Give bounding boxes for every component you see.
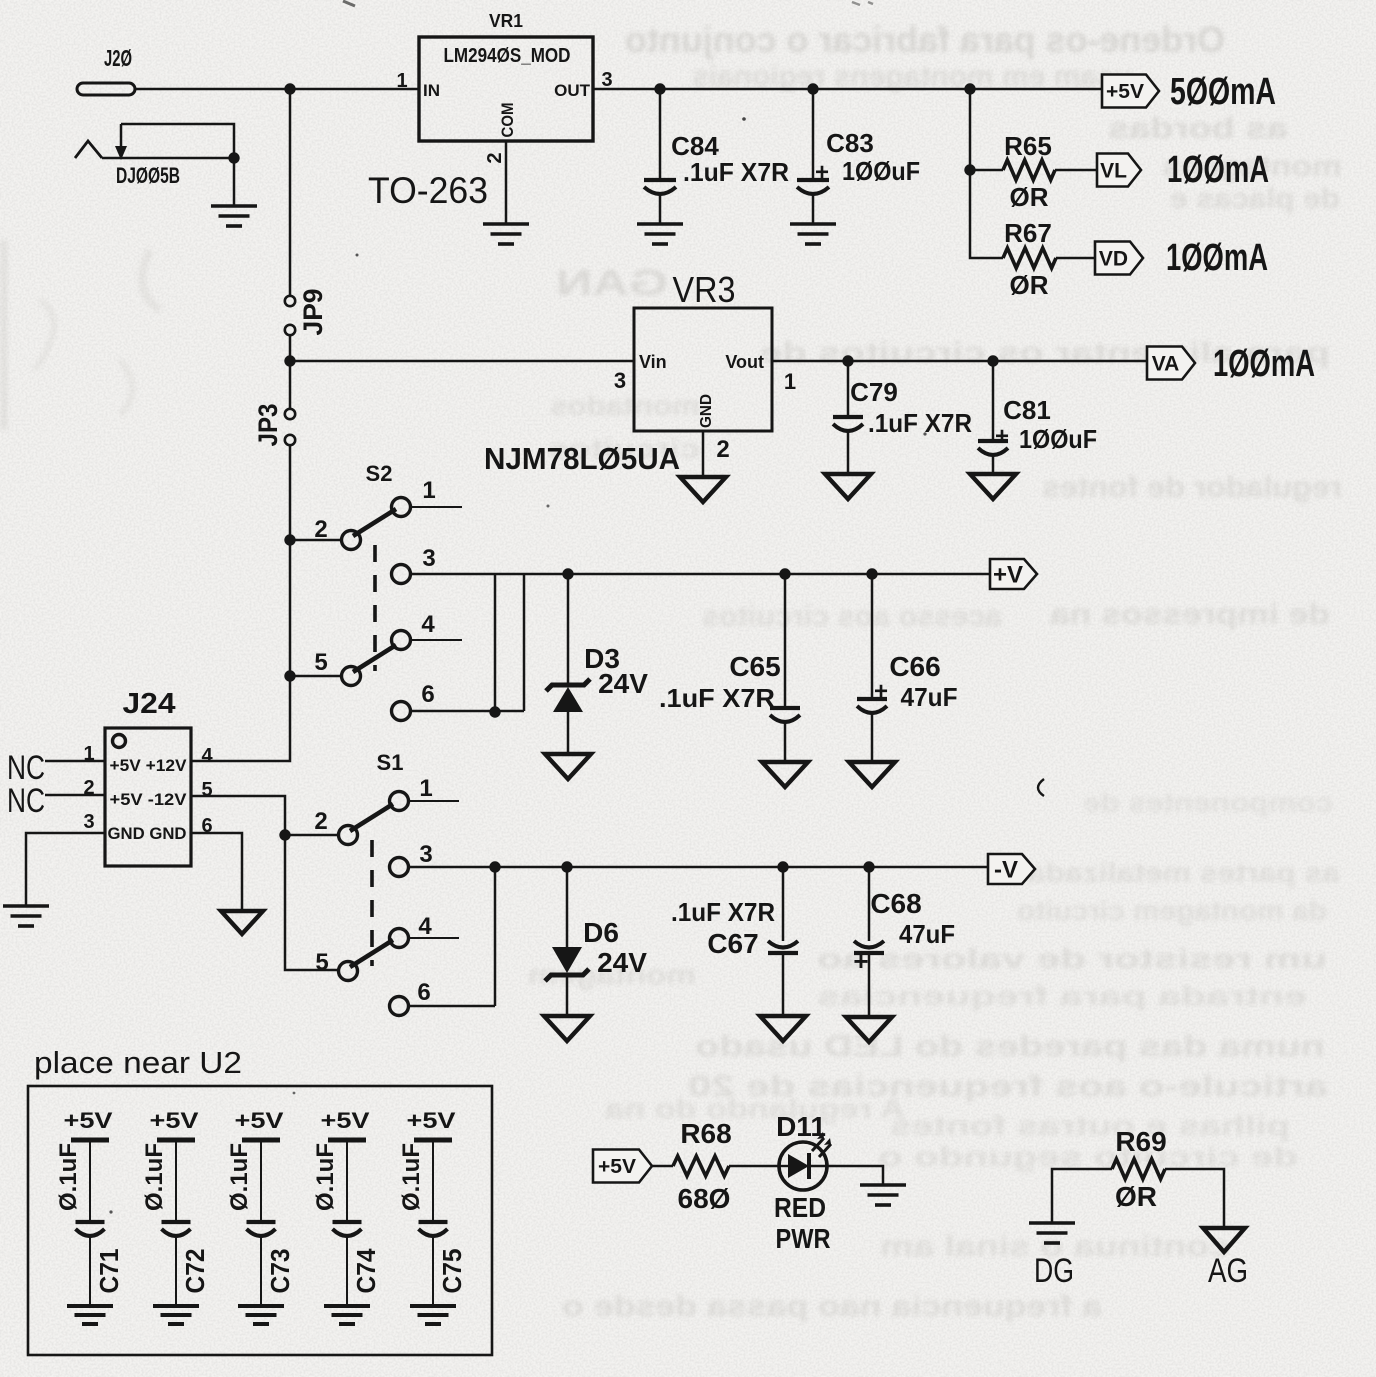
- svg-text:68Ø: 68Ø: [678, 1183, 731, 1214]
- svg-text:R68: R68: [680, 1118, 731, 1149]
- svg-text:-V: -V: [994, 857, 1018, 884]
- svg-text:+5V +12V: +5V +12V: [110, 756, 188, 775]
- svg-text:place near U2: place near U2: [34, 1045, 242, 1080]
- svg-text:C72: C72: [180, 1249, 210, 1294]
- svg-text:Ø.1uF: Ø.1uF: [55, 1143, 82, 1211]
- svg-text:S1: S1: [377, 750, 404, 775]
- svg-text:R67: R67: [1004, 218, 1052, 248]
- svg-text:1ØØuF: 1ØØuF: [1019, 424, 1097, 454]
- svg-text:+5V: +5V: [64, 1108, 113, 1133]
- svg-text:JP9: JP9: [298, 289, 328, 336]
- svg-text:montados: montados: [550, 390, 700, 421]
- svg-text:24V: 24V: [597, 947, 647, 978]
- svg-text:5: 5: [314, 649, 327, 676]
- svg-text:+V: +V: [993, 562, 1023, 589]
- svg-text:C71: C71: [94, 1249, 124, 1294]
- svg-text:S2: S2: [366, 461, 393, 486]
- svg-text:24V: 24V: [598, 668, 648, 699]
- svg-text:LM294ØS_MOD: LM294ØS_MOD: [444, 45, 571, 67]
- svg-text:C81: C81: [1003, 395, 1051, 425]
- svg-text:da montagem circuito: da montagem circuito: [1017, 895, 1327, 926]
- svg-text:C75: C75: [437, 1249, 467, 1294]
- svg-text:NC: NC: [7, 782, 45, 820]
- svg-text:1: 1: [422, 477, 435, 504]
- svg-text:VR3: VR3: [673, 269, 736, 310]
- svg-text:2: 2: [314, 808, 327, 835]
- svg-text:VD: VD: [1099, 248, 1128, 271]
- svg-text:.1uF X7R: .1uF X7R: [659, 683, 775, 713]
- svg-text:VR1: VR1: [489, 11, 523, 31]
- svg-text:GND: GND: [698, 394, 715, 428]
- svg-text:VA: VA: [1152, 353, 1180, 376]
- svg-text:D6: D6: [583, 917, 619, 948]
- svg-text:as bordas: as bordas: [1108, 112, 1288, 145]
- svg-text:Ø.1uF: Ø.1uF: [141, 1143, 168, 1211]
- svg-text:5: 5: [201, 779, 212, 801]
- svg-text:3: 3: [83, 811, 94, 833]
- svg-text:J2Ø: J2Ø: [104, 45, 132, 71]
- svg-text:COM: COM: [498, 103, 517, 138]
- svg-text:C73: C73: [265, 1249, 295, 1294]
- svg-text:C79: C79: [850, 377, 898, 407]
- svg-text:2: 2: [716, 436, 729, 463]
- svg-text:4: 4: [201, 745, 213, 767]
- svg-text:3: 3: [614, 368, 626, 393]
- svg-text:Ø.1uF: Ø.1uF: [312, 1143, 339, 1211]
- svg-text:5ØØmA: 5ØØmA: [1170, 71, 1276, 113]
- svg-text:+5V: +5V: [1106, 81, 1145, 103]
- svg-text:C68: C68: [870, 888, 921, 919]
- svg-text:a frequencia nao passa desde o: a frequencia nao passa desde o: [562, 1290, 1102, 1323]
- svg-text:C65: C65: [729, 651, 780, 682]
- svg-text:ØR: ØR: [1115, 1181, 1157, 1212]
- svg-text:as partes metalizadas: as partes metalizadas: [1010, 857, 1340, 888]
- svg-text:1ØØmA: 1ØØmA: [1166, 237, 1268, 279]
- svg-text:+: +: [815, 159, 829, 186]
- svg-text:1ØØmA: 1ØØmA: [1167, 149, 1269, 191]
- svg-text:1: 1: [396, 70, 407, 92]
- svg-text:+5V: +5V: [235, 1108, 284, 1133]
- svg-text:C83: C83: [826, 128, 874, 158]
- svg-text:Vin: Vin: [639, 352, 667, 372]
- svg-text:RED: RED: [774, 1192, 826, 1223]
- svg-text:1: 1: [784, 369, 796, 394]
- svg-text:.1uF X7R: .1uF X7R: [671, 897, 775, 927]
- svg-text:entrada para frequencias: entrada para frequencias: [817, 981, 1307, 1011]
- svg-text:R65: R65: [1004, 131, 1052, 161]
- svg-text:1ØØuF: 1ØØuF: [842, 156, 920, 186]
- svg-text:.1uF X7R: .1uF X7R: [683, 157, 789, 187]
- svg-text:AG: AG: [1208, 1252, 1248, 1290]
- svg-text:5: 5: [315, 949, 328, 976]
- svg-text:3: 3: [419, 841, 432, 868]
- svg-text:de impressos na: de impressos na: [1050, 598, 1330, 631]
- svg-text:+5V: +5V: [321, 1108, 370, 1133]
- svg-text:+5V: +5V: [598, 1156, 637, 1178]
- svg-text:OUT: OUT: [554, 81, 591, 100]
- svg-text:IN: IN: [423, 81, 440, 100]
- svg-text:J24: J24: [123, 688, 176, 720]
- svg-text:+: +: [874, 678, 888, 705]
- svg-text:47uF: 47uF: [901, 682, 958, 712]
- svg-text:ØR: ØR: [1010, 270, 1049, 300]
- svg-text:3: 3: [422, 545, 435, 572]
- svg-text:um resistor de valores ao: um resistor de valores ao: [817, 943, 1327, 974]
- svg-text:DG: DG: [1034, 1252, 1074, 1290]
- svg-text:Ø.1uF: Ø.1uF: [398, 1143, 425, 1211]
- svg-text:ØR: ØR: [1010, 182, 1049, 212]
- svg-text:2: 2: [484, 152, 506, 163]
- svg-text:GAN: GAN: [556, 262, 668, 303]
- svg-text:Ø.1uF: Ø.1uF: [226, 1143, 253, 1211]
- svg-text:+5V: +5V: [407, 1108, 456, 1133]
- svg-text:C67: C67: [707, 928, 758, 959]
- svg-text:1: 1: [419, 775, 432, 802]
- svg-text:Ordene-os para fabricar o conj: Ordene-os para fabricar o conjunto: [625, 19, 1225, 60]
- svg-text:1ØØmA: 1ØØmA: [1213, 343, 1315, 385]
- svg-text:Vout: Vout: [725, 352, 764, 372]
- svg-text:4: 4: [421, 611, 435, 638]
- svg-text:pilhas e outras fontes: pilhas e outras fontes: [890, 1110, 1290, 1141]
- svg-text:6: 6: [421, 681, 434, 708]
- svg-text:PWR: PWR: [776, 1223, 831, 1254]
- svg-text:+5V -12V: +5V -12V: [110, 790, 188, 809]
- svg-text:JP3: JP3: [253, 404, 283, 447]
- svg-text:6: 6: [417, 979, 430, 1006]
- svg-text:+: +: [995, 423, 1009, 450]
- svg-text:GND GND: GND GND: [108, 824, 187, 843]
- svg-text:C74: C74: [351, 1248, 381, 1294]
- svg-text:C66: C66: [889, 651, 940, 682]
- svg-text:47uF: 47uF: [899, 919, 955, 949]
- svg-text:NJM78LØ5UA: NJM78LØ5UA: [484, 441, 680, 476]
- svg-text:de circuito segundo o: de circuito segundo o: [878, 1141, 1298, 1172]
- svg-text:4: 4: [418, 913, 432, 940]
- svg-text:D11: D11: [776, 1111, 826, 1142]
- svg-text:R69: R69: [1115, 1126, 1166, 1157]
- svg-text:acesso aos circuitos: acesso aos circuitos: [702, 600, 1002, 633]
- svg-text:+5V: +5V: [150, 1108, 199, 1133]
- svg-text:3: 3: [601, 69, 612, 91]
- svg-text:.1uF X7R: .1uF X7R: [868, 408, 972, 438]
- svg-text:componentes de: componentes de: [1083, 787, 1333, 818]
- svg-text:+: +: [853, 946, 868, 976]
- svg-text:regulador de fontes: regulador de fontes: [1042, 471, 1342, 504]
- svg-text:A regulando do na: A regulando do na: [604, 1093, 905, 1124]
- svg-text:TO-263: TO-263: [368, 170, 488, 211]
- svg-text:VL: VL: [1100, 160, 1127, 183]
- svg-text:DJØØ5B: DJØØ5B: [116, 163, 180, 188]
